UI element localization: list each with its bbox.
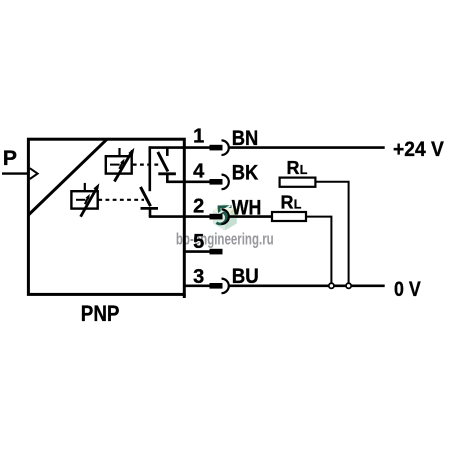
wire port P <box>2 172 28 174</box>
switch contact S2 (lower, NO) <box>141 187 159 217</box>
svg-text:3: 3 <box>193 266 204 288</box>
connector plug pin 3 <box>210 283 223 289</box>
connector socket pin 2 <box>222 209 229 224</box>
svg-text:R: R <box>281 193 294 213</box>
wire pin 4 output (S1 to plug) <box>166 181 210 184</box>
connector socket pin 3 <box>222 279 229 294</box>
port P open arrowhead <box>30 168 38 179</box>
wire internal supply drop <box>149 146 152 191</box>
svg-text:PNP: PNP <box>81 301 120 326</box>
resistor RL2 <box>272 212 306 221</box>
connector socket pin 4 <box>222 175 229 190</box>
wire pin 5 (unconnected) <box>184 250 210 253</box>
connector plug pin 5 <box>210 249 223 255</box>
dashed actuation line B1 to S1 <box>133 164 159 166</box>
svg-text:5: 5 <box>193 231 204 253</box>
svg-text:WH: WH <box>232 196 261 219</box>
pressure setpoint element B2 (lower) <box>71 183 97 209</box>
wire WH socket to RL2 <box>229 215 272 218</box>
svg-text:4: 4 <box>193 161 205 183</box>
connector plug pin 1 <box>210 145 223 151</box>
wire pin 1 supply (inside box to plug) <box>149 146 210 149</box>
enclosure corner stub <box>183 294 186 298</box>
svg-text:0 V: 0 V <box>394 276 421 301</box>
enclosure diagonal line <box>28 139 107 215</box>
connector plug pin 4 <box>210 179 223 185</box>
svg-text:bp-engineering.ru: bp-engineering.ru <box>176 229 274 248</box>
connector socket pin 1 <box>222 140 229 155</box>
svg-text:L: L <box>294 198 302 212</box>
wire BN socket to +24V <box>229 146 385 149</box>
junction node RL2 on 0V <box>329 283 334 288</box>
wire pin 3 (box to plug) <box>184 284 210 287</box>
switch contact S1 (upper, NO) <box>158 148 176 182</box>
watermark logo cube <box>213 203 239 230</box>
svg-text:P: P <box>3 146 17 170</box>
svg-text:+24 V: +24 V <box>393 136 444 161</box>
connector plug pin 2 <box>210 214 223 220</box>
wire BU socket to 0V <box>229 284 385 287</box>
resistor RL1 <box>280 178 316 187</box>
svg-text:BN: BN <box>232 127 258 150</box>
pressure setpoint element B1 (upper) <box>106 148 132 174</box>
svg-text:2: 2 <box>193 196 204 218</box>
svg-text:BK: BK <box>232 162 258 185</box>
wire RL1 to 0V node <box>315 182 348 283</box>
junction node RL1 on 0V <box>346 283 351 288</box>
sensor enclosure box <box>28 139 184 294</box>
value label RL1 <box>287 158 308 178</box>
svg-text:1: 1 <box>193 126 204 148</box>
svg-text:R: R <box>287 158 300 178</box>
dashed actuation line B2 to S2 <box>98 199 144 201</box>
adjustment arrow B2 <box>81 183 100 216</box>
svg-text:BU: BU <box>232 265 259 288</box>
svg-text:L: L <box>300 163 308 177</box>
wire RL2 to 0V node <box>306 217 331 284</box>
value label RL2 <box>281 193 302 213</box>
adjustment arrow B1 <box>114 148 134 182</box>
wire pin 2 output (S2 to plug) <box>149 215 210 218</box>
